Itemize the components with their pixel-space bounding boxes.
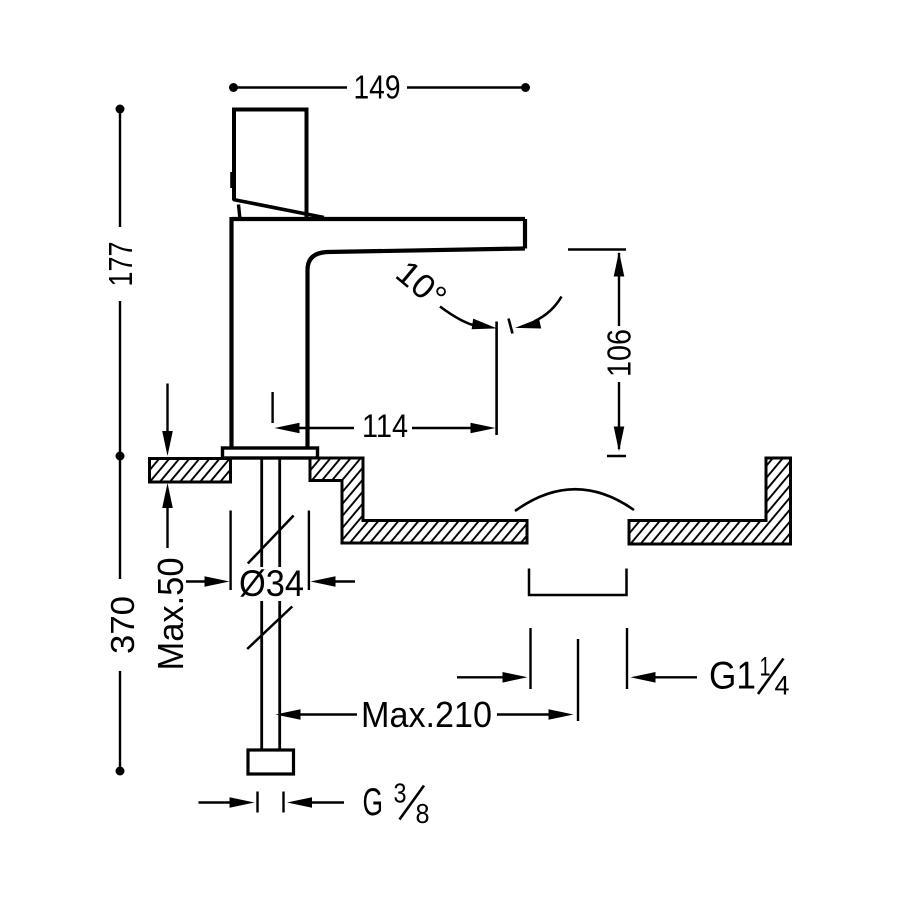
dimension 370 [102,452,141,776]
svg-text:8: 8 [416,798,430,829]
drain tailpiece bracket [529,569,627,596]
svg-text:Max.210: Max.210 [361,694,492,735]
svg-text:G: G [363,781,384,824]
svg-text:4: 4 [775,671,790,701]
svg-text:G1: G1 [709,655,756,698]
svg-text:370: 370 [104,596,141,654]
supply hose fitting G3/8 [248,750,294,774]
dimension 149 [229,69,530,106]
dimension 114 [273,392,496,444]
svg-text:114: 114 [362,408,408,444]
angle arc right [515,297,562,329]
dimension Max.50 [150,384,191,671]
svg-text:149: 149 [354,69,401,106]
countertop + basin step section [310,458,527,543]
supply pipe [262,459,280,751]
dimension 106 [568,250,638,457]
svg-text:177: 177 [102,242,139,287]
pipe break slash upper [248,516,294,564]
svg-text:3: 3 [394,778,407,809]
drain dome arc [515,489,634,511]
pipe break slash lower [247,607,292,650]
dimension Max.210 [276,639,579,735]
spout outlet extension line [495,322,498,436]
dimension 177 [102,105,139,457]
svg-text:Max.50: Max.50 [150,558,191,671]
faucet base plate [223,448,318,458]
faucet body and spout [232,217,526,448]
svg-text:106: 106 [601,329,638,377]
countertop left section [150,459,231,483]
tilted outlet tick [509,319,513,334]
faucet handle [232,110,324,220]
dimension diameter 34 [186,511,355,605]
basin right section [629,458,791,544]
angle arc left [440,307,497,330]
dimension G3/8 [199,778,430,830]
dimension G1 1/4 [457,628,790,701]
svg-text:Ø34: Ø34 [239,563,304,604]
